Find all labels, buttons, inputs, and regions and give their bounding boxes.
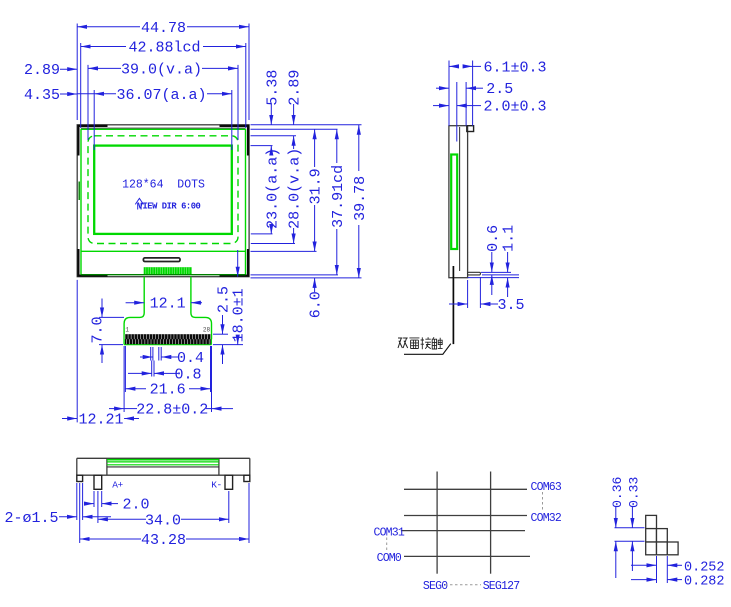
svg-text:VIEW DIR 6:00: VIEW DIR 6:00 (138, 201, 201, 211)
dim 0.4 (140, 347, 204, 367)
svg-text:2.0±0.3: 2.0±0.3 (484, 99, 547, 116)
dim 2.5 teeth (213, 286, 232, 364)
dim 44.78 (77, 20, 249, 37)
dim 2.0 pm 0.3 (433, 99, 547, 116)
svg-text:18.0±1: 18.0±1 (231, 288, 248, 342)
dim 0.36 (610, 477, 625, 578)
svg-text:28: 28 (203, 327, 211, 334)
svg-text:37.91cd: 37.91cd (330, 165, 347, 228)
svg-text:K-: K- (211, 480, 221, 491)
anode pin A+ (94, 475, 102, 489)
svg-text:COM0: COM0 (377, 552, 402, 565)
dim 1.1 (468, 225, 519, 297)
svg-text:31.9: 31.9 (308, 168, 325, 204)
front view corner bracket bottom-left (78, 249, 107, 276)
svg-text:42.88lcd: 42.88lcd (128, 40, 200, 57)
dim 39.78 (352, 125, 369, 278)
cathode pin K- (225, 475, 233, 489)
dim 0.6 (481, 225, 519, 295)
svg-text:1.1: 1.1 (501, 225, 518, 252)
svg-text:SEG0: SEG0 (423, 580, 448, 593)
lcd glass bottom edge (81, 274, 246, 276)
label A+ (112, 480, 123, 491)
flex cable left edge (124, 277, 144, 345)
bottom view green stripes (107, 460, 219, 465)
staircase tick lines (615, 528, 645, 542)
viewing area dashed outline (39.0 v.a) (88, 136, 238, 244)
svg-text:2.0: 2.0 (122, 497, 149, 514)
svg-text:128*64 DOTS: 128*64 DOTS (122, 179, 205, 192)
dim 0.282 (631, 575, 725, 590)
svg-text:36.07(a.a): 36.07(a.a) (116, 87, 206, 104)
pinmap row line COM32 (404, 515, 527, 517)
label COM63 (531, 481, 562, 494)
dim 23.0(a.a) (264, 146, 281, 234)
label COM0 (377, 552, 402, 565)
dim 12.1 (126, 296, 202, 313)
pinmap row line COM31 (401, 530, 525, 532)
bottom view ext lines (77, 483, 249, 543)
svg-text:COM63: COM63 (531, 481, 562, 494)
svg-text:0.4: 0.4 (177, 350, 204, 367)
pinmap row line COM0 (404, 555, 530, 557)
label K- (211, 480, 221, 491)
dim 22.8 pm 0.2 (109, 346, 233, 419)
ext lines above module (77, 24, 249, 151)
side ext lines vertical (449, 61, 473, 142)
chinese label leader line (404, 344, 451, 355)
dashed link COM63-COM32 (542, 492, 544, 511)
svg-text:2.5: 2.5 (486, 81, 513, 98)
svg-text:6.1±0.3: 6.1±0.3 (484, 59, 547, 76)
dim 2.5 side (436, 81, 513, 98)
svg-text:12.21: 12.21 (78, 412, 123, 429)
dim 18.0 pm 1 (213, 250, 248, 345)
svg-text:COM32: COM32 (531, 512, 562, 525)
dim 42.88lcd (81, 40, 246, 57)
text VIEW DIR 6:00 (138, 201, 201, 211)
svg-text:1: 1 (125, 327, 129, 334)
svg-text:2-ø1.5: 2-ø1.5 (4, 510, 58, 527)
svg-text:21.6: 21.6 (150, 382, 186, 399)
active area outline (36.07 a.a) (94, 146, 232, 234)
dim 21.6 (125, 346, 210, 399)
dim 0.8 (128, 361, 202, 384)
chinese label 'double-sided contact' (398, 337, 443, 349)
svg-text:2.89: 2.89 (24, 62, 60, 79)
bottom view top edge (77, 457, 250, 459)
svg-text:COM31: COM31 (373, 527, 404, 540)
svg-text:4.35: 4.35 (24, 87, 60, 104)
front view corner bracket top-right (220, 126, 249, 156)
dim 2-dia1.5 (4, 510, 111, 527)
svg-text:34.0: 34.0 (145, 512, 181, 529)
pinmap column line SEG127 (490, 472, 492, 574)
front view corner bracket top-left (78, 126, 107, 156)
dim 43.28 (80, 532, 249, 549)
dim 3.5 (449, 277, 525, 314)
label COM31 (373, 527, 404, 540)
bottom view right block edges (219, 458, 250, 475)
side view contact ledge (468, 272, 481, 275)
svg-text:12.1: 12.1 (150, 296, 186, 313)
lcd glass top dark edge (81, 127, 246, 129)
svg-text:6.0: 6.0 (308, 291, 325, 318)
dashed link COM31-COM0 (386, 538, 388, 551)
left edge elastomer mark (79, 182, 80, 201)
svg-text:0.36: 0.36 (610, 477, 625, 508)
dim 6.1 pm 0.3 (449, 59, 547, 76)
svg-text:44.78: 44.78 (141, 20, 186, 37)
staircase dot squares (646, 515, 678, 554)
view direction arrow glyph (135, 198, 143, 209)
bottom view inner dark line (107, 466, 219, 468)
dim 34.0 (98, 512, 229, 529)
front connector hatched block (144, 267, 192, 275)
svg-text:A+: A+ (112, 480, 123, 491)
dim 6.0 (308, 278, 325, 318)
svg-text:23.0(a.a): 23.0(a.a) (264, 148, 281, 229)
svg-text:43.28: 43.28 (141, 532, 186, 549)
label SEG127 (483, 580, 520, 593)
label SEG0 (423, 580, 448, 593)
svg-text:5.38: 5.38 (264, 70, 281, 106)
dim 7.0 (89, 299, 124, 364)
dim 12.21 (62, 280, 139, 429)
svg-text:3.5: 3.5 (497, 297, 524, 314)
dim 36.07(a.a) (94, 87, 232, 104)
svg-text:0.6: 0.6 (485, 225, 502, 252)
backlight hole (143, 258, 180, 262)
dim 2.89 vertical (287, 70, 304, 125)
pin 1 label (125, 327, 129, 334)
side view body (449, 126, 468, 278)
svg-text:22.8±0.2: 22.8±0.2 (136, 402, 208, 419)
svg-text:39.78: 39.78 (352, 176, 369, 221)
dashed link SEG0-SEG127 (445, 584, 481, 586)
side view flex cable (452, 266, 454, 344)
svg-text:7.0: 7.0 (89, 316, 106, 343)
dim 0.252 (631, 560, 725, 575)
dim 4.35 left (24, 87, 94, 104)
svg-text:28.0(v.a): 28.0(v.a) (287, 148, 304, 229)
dim 31.9 (308, 129, 325, 251)
svg-text:SEG127: SEG127 (483, 580, 520, 593)
pinmap column line SEG0 (436, 472, 438, 574)
pin 28 label (203, 327, 211, 334)
mounting peg left (77, 475, 83, 481)
dim 0.33 (626, 477, 641, 571)
side view glass strip (451, 155, 457, 250)
front view module outline (77, 125, 249, 277)
flex connector bottom edge (124, 344, 211, 346)
label COM32 (531, 512, 562, 525)
text 128*64 DOTS (122, 179, 205, 192)
lcd glass outline (42.88lcd) (81, 129, 246, 274)
dim 2.89 left (24, 62, 77, 79)
dim 5.38 (264, 70, 281, 125)
dim 28.0(v.a) (287, 136, 304, 244)
dim 39.0(v.a) (88, 61, 238, 78)
svg-text:39.0(v.a): 39.0(v.a) (121, 61, 202, 78)
svg-text:0.33: 0.33 (626, 477, 641, 508)
staircase ext lines below (657, 556, 668, 583)
bottom view left block edges (77, 458, 107, 475)
dim 2.0 pin (84, 497, 150, 514)
bottom view bottom edge (77, 474, 250, 476)
front view corner bracket bottom-right (220, 249, 249, 276)
right ext lines (251, 125, 362, 278)
svg-text:2.89: 2.89 (287, 70, 304, 106)
pinmap row line COM63 (404, 488, 527, 490)
connector contact teeth (125, 334, 212, 344)
svg-text:0.252: 0.252 (684, 560, 725, 575)
side view top tab (467, 126, 474, 132)
mounting peg right (244, 475, 250, 481)
flex cable right edge (191, 277, 212, 345)
svg-text:0.282: 0.282 (684, 575, 725, 590)
dim 37.91cd (330, 129, 347, 275)
